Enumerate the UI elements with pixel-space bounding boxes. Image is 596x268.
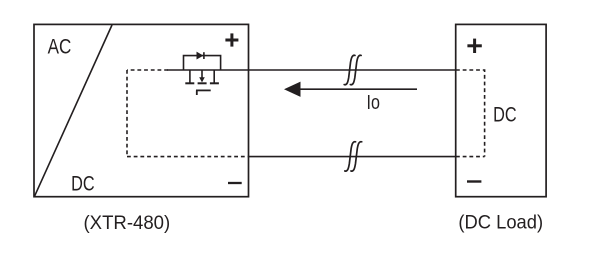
minus terminal (load)	[467, 180, 481, 182]
mosfet Q1 source stub	[213, 70, 215, 83]
converter box (XTR-480)	[34, 24, 249, 196]
mosfet Q1 gate lead	[196, 90, 198, 95]
mosfet Q1 body-diode loop wire	[184, 56, 221, 70]
svg-text:Io: Io	[367, 91, 380, 114]
svg-text:(DC Load): (DC Load)	[458, 213, 543, 234]
cable break mark (bottom wire)	[345, 142, 362, 171]
mosfet Q1 channel bar left	[185, 82, 194, 84]
diode D1 cathode bar	[203, 52, 205, 59]
minus terminal (converter)	[228, 182, 242, 184]
svg-text:(XTR-480): (XTR-480)	[84, 213, 171, 234]
mosfet Q1 gate bar	[196, 89, 211, 91]
mosfet Q1 body arrowhead	[199, 77, 205, 82]
current arrowhead	[284, 82, 301, 97]
plus terminal (converter)	[225, 33, 238, 46]
AC/DC divider diagonal	[35, 25, 113, 196]
svg-text:DC: DC	[71, 173, 95, 196]
mosfet Q1 body arrow stem	[201, 70, 203, 79]
mosfet Q1 channel bar right	[210, 82, 219, 84]
cable break mark (top wire)	[344, 55, 361, 84]
mosfet Q1 drain stub	[189, 70, 191, 83]
wire (bottom, - lead)	[249, 156, 457, 158]
mosfet Q1 channel bar middle	[198, 82, 207, 84]
wire (top, + lead)	[167, 69, 456, 71]
load box (DC Load)	[456, 24, 546, 196]
current arrow Io	[300, 88, 417, 90]
dashed box (current loop)	[127, 70, 485, 157]
svg-text:AC: AC	[48, 35, 72, 58]
plus terminal (load)	[467, 39, 481, 53]
svg-text:DC: DC	[493, 104, 516, 127]
diode D1 (body diode) triangle	[197, 52, 203, 59]
